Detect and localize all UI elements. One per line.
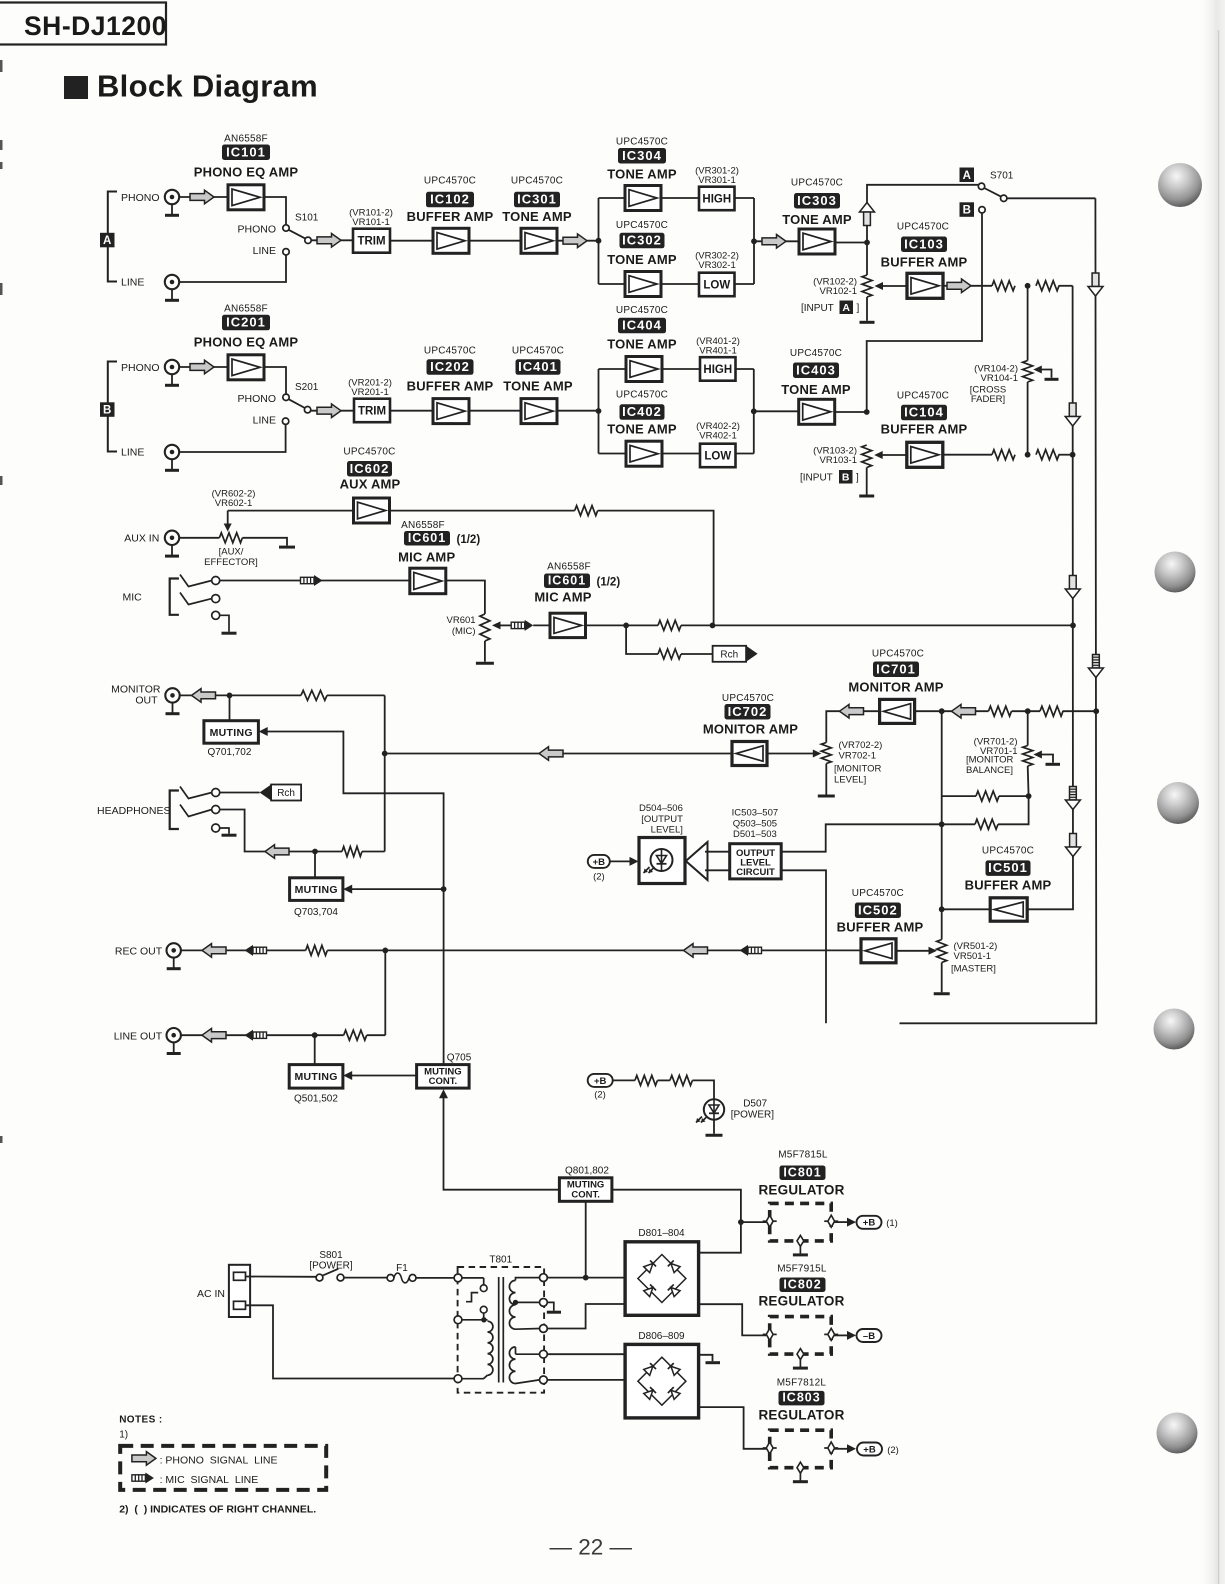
wire mic to bus [681,624,1073,626]
phono arrow headphones [265,845,289,859]
binder holes [1154,163,1203,1454]
svg-text:UPC4570C: UPC4570C [616,305,668,316]
svg-text:[MONITOR: [MONITOR [966,755,1013,766]
scan marks left edge [0,60,3,1143]
svg-text:IC103: IC103 [904,236,944,251]
svg-text:— 22 —: — 22 — [550,1535,633,1560]
phono arrow B input [190,360,214,374]
wire VR602 to ground [242,538,287,546]
wire to LED D507 [692,1080,714,1099]
transformer core [499,1277,504,1383]
svg-text:OUT: OUT [135,695,158,707]
svg-text:A: A [103,235,111,247]
label MONITOR OUT [111,684,161,707]
down arrow bus L 3 hatched [1065,787,1080,810]
svg-text:]: ] [857,303,860,314]
wire to IC404 [599,368,627,370]
label VR103 [813,446,857,466]
phono arrow to IC303 [762,235,786,249]
svg-text:VR201-1: VR201-1 [351,387,389,398]
wire master right [998,796,1029,824]
junction rec branch [382,948,388,954]
bus left mix [1027,286,1073,910]
wire IC102 to IC301 [469,240,521,242]
wire mic to amp [220,580,410,582]
svg-text:]: ] [856,473,859,484]
wire A tone split vertical [598,198,600,284]
wire IC302 to LOW [661,283,699,285]
svg-text:UPC4570C: UPC4570C [982,846,1034,857]
wire AC neutral [246,1305,455,1378]
junction bus L at mic line [1070,623,1076,629]
wire balance lower [942,795,976,797]
IC501 label [986,860,1031,876]
svg-text:(MIC): (MIC) [452,626,476,637]
svg-text:EFFECTOR]: EFFECTOR] [204,557,258,568]
resistor headphones [342,847,362,857]
svg-text:REC OUT: REC OUT [115,945,163,957]
junction IC501 out [939,906,945,912]
high box A [699,187,735,211]
wire bridge1 plus out [699,1222,741,1253]
op-amp IC501 buffer amp [990,898,1027,921]
svg-text:AN6558F: AN6558F [547,562,591,573]
junction aux mic [710,623,716,629]
potentiometer VR702 monitor level [821,743,831,764]
label IC503-507 Q503-505 D501-503 [732,808,778,841]
IC803 label [779,1391,825,1406]
svg-text:VR102-1: VR102-1 [820,286,858,297]
wire phono A jack to amp [179,196,228,198]
svg-text:Q503–505: Q503–505 [733,818,777,829]
potentiometer VR501 master [937,940,947,963]
op-amp IC602 aux amp [354,498,390,523]
svg-text:BUFFER AMP: BUFFER AMP [881,255,968,270]
secondary upper connections [513,1278,540,1330]
svg-text:LOW: LOW [704,450,731,462]
svg-text:IC301: IC301 [517,192,557,207]
wire AC hot to switch [246,1276,317,1278]
svg-text:UPC4570C: UPC4570C [872,649,924,660]
op-amp IC302 tone amp [625,272,661,297]
wire S101 to TRIM A [311,239,353,241]
svg-text:(1/2): (1/2) [597,577,621,589]
wiper VR501 [896,947,937,955]
svg-text:D801–804: D801–804 [638,1228,685,1239]
svg-text:FADER]: FADER] [971,394,1005,405]
switch S101 [283,225,311,255]
wire TRIM A to IC102 [390,240,433,242]
wire LINE B jack to S201 [179,424,285,452]
svg-text:Q703,704: Q703,704 [294,907,338,918]
up arrow A select [860,203,875,226]
svg-text:UPC4570C: UPC4570C [424,346,476,357]
svg-text:BUFFER AMP: BUFFER AMP [407,379,494,394]
svg-text:VR702-1: VR702-1 [839,751,877,762]
wire VR103 to ground [866,468,868,495]
ground VR702 [818,795,835,798]
svg-text:MONITOR AMP: MONITOR AMP [848,680,943,695]
junction line out muting [312,1032,318,1038]
resistor A mix 1 [992,281,1015,291]
svg-text:VR501-1: VR501-1 [954,951,992,962]
down arrow bus L 4 [1066,834,1081,857]
svg-text:[MONITOR: [MONITOR [834,764,881,775]
wire AUX jack to pot [179,537,219,539]
wire IC402 to LOW [662,453,700,455]
phono arrow monitor amp out [539,747,563,761]
svg-text:BUFFER AMP: BUFFER AMP [837,920,924,935]
svg-text:AN6558F: AN6558F [401,520,445,531]
svg-text:: PHONO SIGNAL LINE: : PHONO SIGNAL LINE [160,1454,278,1466]
svg-text:B: B [842,472,850,484]
svg-text:D501–503: D501–503 [733,829,777,840]
svg-text:–B: –B [863,1331,875,1342]
resistor B mix 2 [1036,450,1059,460]
arrow into muting3 [343,1071,352,1080]
svg-text:UPC4570C: UPC4570C [343,447,395,458]
wire IC103 out [943,285,992,287]
svg-text:TONE AMP: TONE AMP [781,382,851,397]
junction mic out [623,623,629,629]
IC402 label [620,404,665,420]
svg-text:IC803: IC803 [782,1391,820,1405]
potentiometer VR102 input A fader [862,275,872,297]
switch S701 [978,183,1007,213]
wire IC104 out [943,454,992,456]
svg-text:M5F7812L: M5F7812L [777,1378,827,1389]
wire monitor to bus R [1063,710,1097,712]
wire secondary2 top to bridge2 [547,1353,625,1355]
wiper VR103 [874,451,907,459]
svg-text:PHONO EQ AMP: PHONO EQ AMP [194,335,299,350]
wire mic Rch branch [626,625,658,654]
svg-text:S701: S701 [990,171,1014,182]
junction B tone join [751,408,757,414]
wire rec to line out [384,950,386,1035]
resistor aux out [575,506,598,516]
wire IC602 out [390,510,575,512]
svg-text:REGULATOR: REGULATOR [758,1183,844,1198]
wire to IC402 [599,453,627,455]
IC404 label [618,318,666,334]
mic arrow rec mid [740,945,762,956]
svg-text:(VR702-2): (VR702-2) [839,740,883,751]
svg-text:VR401-1: VR401-1 [699,345,737,356]
op-amp IC701 monitor amp [880,699,915,723]
wire A mix to bus [1059,285,1073,287]
IC602 label [347,461,392,477]
phono arrow legend [132,1452,156,1466]
node B [100,402,115,417]
wire VR501 bottom [941,963,943,993]
IC302 label [620,233,665,249]
junction bus R at monitor line [1093,708,1099,714]
pill +B 2 [857,1443,882,1456]
IC202 label [427,359,474,375]
jack LINE B [165,445,179,471]
label VR201 [348,378,392,398]
IC801 label [780,1165,826,1180]
wire to IC302 [599,283,626,285]
svg-text:Q501,502: Q501,502 [294,1094,338,1105]
IC502 label [855,902,901,918]
resistor mic Rch [658,649,681,659]
wire VR701 bottom [1027,766,1030,796]
svg-text:UPC4570C: UPC4570C [897,222,949,233]
ground VR602 [279,546,295,549]
wire bridge2 out [699,1407,767,1449]
phono arrow to TRIM B [317,404,341,418]
wire to IC303 [754,240,799,242]
headphone sleeve ground [220,828,237,835]
junction monitor muting [227,693,233,699]
big arrow into LED block [686,842,708,880]
wire monitor line right [327,694,385,696]
op-amp IC101 phono eq amp [228,185,264,210]
svg-text:CONT.: CONT. [429,1076,458,1087]
wire hp line right [362,851,385,853]
svg-text:IC302: IC302 [622,233,662,248]
Rch pointer headphones [260,785,302,801]
label VR402 [696,421,740,441]
resistor master 1 [975,819,998,829]
svg-text:IC501: IC501 [988,860,1028,875]
mic arrow line out [245,1030,267,1041]
svg-text:Q801,802: Q801,802 [565,1165,609,1176]
label MONITOR BALANCE [966,755,1013,777]
wire D507 to ground [713,1120,715,1134]
svg-text:[OUTPUT: [OUTPUT [641,814,683,825]
label MONITOR LEVEL [834,764,881,786]
pill +B power LED [588,1074,613,1087]
resistor mic mix [658,620,681,630]
potentiometer VR104 cross fader [1023,361,1033,383]
junction IC702 line [382,751,388,757]
junction VR701 top [1025,708,1031,714]
svg-text:PHONO EQ AMP: PHONO EQ AMP [194,165,299,180]
svg-text:BUFFER AMP: BUFFER AMP [965,878,1052,893]
phono arrow after IC301 [563,234,587,248]
svg-text:(2): (2) [593,872,605,883]
svg-text:A: A [842,302,850,314]
mic jack body [170,579,179,615]
label VR702 monitor level [839,740,883,762]
mic sleeve ground [220,615,237,633]
bridge rectifier D806-809 [625,1344,699,1418]
wire primary coil to bottom contact [462,1375,488,1379]
wire VR701 string top [1027,711,1029,745]
label VR301 [695,166,739,186]
svg-text:TONE AMP: TONE AMP [502,209,572,224]
jack MONITOR OUT [165,688,179,714]
svg-text:BUFFER AMP: BUFFER AMP [407,209,494,224]
arrow IC801 out [847,1218,856,1227]
svg-text:D507: D507 [743,1099,767,1110]
svg-text:AUX IN: AUX IN [124,533,159,545]
wire IC702 output line [385,753,732,755]
phono arrow rec mid [684,944,708,958]
junction hp muting [312,849,318,855]
label S801 POWER [309,1250,353,1272]
svg-text:UPC4570C: UPC4570C [897,391,949,402]
svg-text:BALANCE]: BALANCE] [966,765,1013,776]
svg-text:VR601: VR601 [447,615,476,626]
wire Q801 out [612,1190,741,1222]
wire LOW A out [735,283,755,285]
label VR701 [974,737,1018,757]
pill +B 1 [857,1216,882,1229]
jack PHONO A [165,190,179,216]
phono arrow rec out [202,944,226,958]
wire IC301 to node [557,240,599,242]
junction IC403 out [864,409,870,415]
junction regulator input [738,1219,744,1225]
svg-text:IC402: IC402 [622,404,662,419]
svg-text:+B: +B [863,1218,876,1229]
IC802 label [780,1277,826,1292]
ground VR103 [859,495,874,498]
svg-text:UPC4570C: UPC4570C [511,176,563,187]
svg-text:IC304: IC304 [622,148,662,163]
svg-text:IC503–507: IC503–507 [732,808,778,819]
wire output level circuit tails [705,852,730,871]
svg-text:UPC4570C: UPC4570C [512,346,564,357]
jack LINE OUT [167,1028,181,1054]
muting block Q703 Q704 [290,878,343,901]
node B at S701 [960,202,975,217]
resistor power LED 1 [635,1075,658,1085]
transformer secondary coil upper [509,1280,515,1329]
label D507 POWER [731,1099,775,1121]
wire output level lower tail [781,870,826,1023]
svg-text:[MASTER]: [MASTER] [951,964,996,975]
IC601b label [544,573,590,588]
secondary lower connections [516,1347,540,1383]
svg-text:AN6558F: AN6558F [224,134,268,145]
wire hp ring line [220,810,342,852]
op-amp IC102 buffer amp [433,228,469,253]
node A at S701 [960,168,975,183]
notes legend dashed box [120,1446,326,1490]
wire IC801 out [835,1221,848,1223]
jack AUX IN [165,531,179,557]
arrow IC802 out [847,1331,856,1340]
svg-text:IC202: IC202 [430,359,470,374]
svg-text:IC104: IC104 [904,405,944,420]
potentiometer VR602 aux [219,533,242,543]
resistor line out [344,1030,367,1040]
op-amp IC303 tone amp [799,229,835,254]
wire rec out line [181,949,306,951]
op-amp IC601 mic amp 1 [410,568,446,594]
svg-text:IC701: IC701 [876,661,916,676]
wire IC401 to node [557,410,599,412]
svg-text:AUX AMP: AUX AMP [340,477,401,492]
svg-text:IC601: IC601 [548,573,586,587]
switch S801 power [316,1269,344,1281]
wire A to S701 [867,185,978,275]
svg-text:IC601: IC601 [408,531,446,545]
wire IC501 out left [942,908,991,910]
ground VR601 [476,662,494,665]
wire phono B jack to amp [179,366,228,368]
svg-text:BUFFER AMP: BUFFER AMP [881,422,968,437]
wire mic amp2 out [586,624,659,626]
svg-text:IC404: IC404 [622,318,662,333]
jack REC OUT [167,943,181,969]
svg-text:VR104-1: VR104-1 [981,373,1019,384]
svg-text:[POWER]: [POWER] [309,1261,353,1272]
wire VR702 bottom [825,764,827,795]
wire S701 common to bus R [1007,197,1096,199]
svg-text:REGULATOR: REGULATOR [758,1294,844,1309]
potentiometer VR601 mic level [480,614,490,641]
phono arrow monitor line [952,704,976,718]
op-amp IC601 mic amp 2 [550,613,586,637]
svg-text:NOTES :: NOTES : [119,1415,162,1426]
low box B [700,444,736,468]
IC101 label [222,144,270,160]
svg-text:VR103-1: VR103-1 [820,455,858,466]
wire IC803 out [835,1448,848,1450]
regulator IC803 [763,1430,839,1482]
svg-text:MONITOR AMP: MONITOR AMP [703,722,798,737]
down arrow bus R 1 [1088,273,1103,296]
phono arrow A input [190,190,214,204]
wire VR702 top [826,711,879,742]
svg-text:D504–506: D504–506 [639,803,683,814]
svg-text:TRIM: TRIM [357,236,385,248]
label INPUT A [801,301,860,315]
label VR401 [696,336,740,356]
trim box B [354,399,390,423]
IC102 label [426,192,474,208]
bridge2 ground [699,1355,720,1363]
svg-text:TONE AMP: TONE AMP [503,379,573,394]
wire switch to fuse [344,1277,387,1279]
wire B tone join vertical [753,369,755,454]
svg-text:CONT.: CONT. [571,1189,600,1200]
svg-text:IC201: IC201 [226,315,266,330]
wire muting1 stem [229,695,231,720]
wiper VR602 [224,511,232,532]
svg-text:REGULATOR: REGULATOR [758,1408,844,1423]
center tap ground [547,1302,561,1312]
svg-text:IC602: IC602 [350,461,390,476]
jack PHONO B [165,360,179,386]
node A [100,233,115,248]
wire to Rch right [681,653,713,655]
junction B tone split [596,408,602,414]
svg-text:IC303: IC303 [797,193,837,208]
op-amp IC702 monitor amp [732,742,767,766]
svg-text:TONE AMP: TONE AMP [607,422,677,437]
svg-text:PHONO: PHONO [237,224,276,236]
ground D507 [706,1134,723,1137]
svg-text:VR301-1: VR301-1 [698,175,736,186]
label VR104 cross fader [974,364,1018,384]
svg-text:Rch: Rch [277,788,295,799]
label INPUT B [800,470,859,484]
svg-text:LEVEL]: LEVEL] [651,825,683,836]
phono arrow line out [202,1028,226,1042]
svg-text:LINE: LINE [121,277,144,289]
svg-text:+B: +B [594,1076,607,1087]
op-amp IC304 tone amp [625,186,661,211]
output level LED block D504-506 [639,838,685,884]
resistor power LED 2 [670,1075,693,1085]
